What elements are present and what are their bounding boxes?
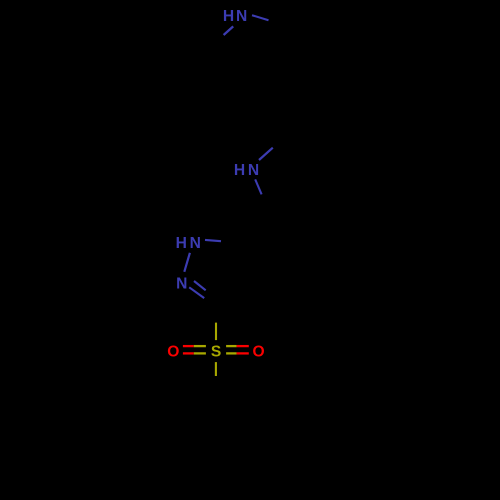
double bond N4=C3 inner line (N-colored half) <box>194 281 206 290</box>
double bond S=O left, upper line, O-colored half <box>183 345 194 347</box>
double bond S=O left, lower line, O-colored half <box>183 352 194 354</box>
svg-text:H: H <box>234 162 245 179</box>
double bond S=O right, upper line, O-colored half <box>237 345 249 347</box>
double bond S=O right, lower line, O-colored half <box>237 352 249 354</box>
svg-text:N: N <box>190 235 201 252</box>
bond N2-C5 pyrazole down-right (N-colored half) <box>255 179 261 194</box>
bond N2-CH2 up-right (N-colored half) <box>259 148 273 160</box>
svg-text:H: H <box>223 8 234 25</box>
svg-text:H: H <box>176 235 187 252</box>
svg-text:O: O <box>167 344 179 361</box>
bond N1-C2 piperidine (N-colored half) <box>252 15 269 20</box>
svg-text:N: N <box>236 8 247 25</box>
bond N1-C6 piperidine (N-colored half) <box>224 26 234 35</box>
double bond S=O right, upper line, S-colored half <box>226 345 237 347</box>
double bond N4=C3 main line (N-colored half) <box>189 287 204 298</box>
svg-text:S: S <box>211 344 221 361</box>
bond S-C1 phenyl vertical (S-colored half) <box>215 362 217 376</box>
bond N3-N4 pyrazole <box>184 253 190 272</box>
double bond S=O right, lower line, S-colored half <box>226 352 237 354</box>
svg-text:N: N <box>176 276 187 293</box>
bond N3-C5 pyrazole horizontal (N-colored half) <box>205 240 221 241</box>
double bond S=O left, lower line, S-colored half <box>194 352 206 354</box>
svg-text:O: O <box>253 344 265 361</box>
svg-text:N: N <box>248 162 259 179</box>
bond C3-S vertical (S-colored half) <box>215 323 217 341</box>
double bond S=O left, upper line, S-colored half <box>194 345 206 347</box>
